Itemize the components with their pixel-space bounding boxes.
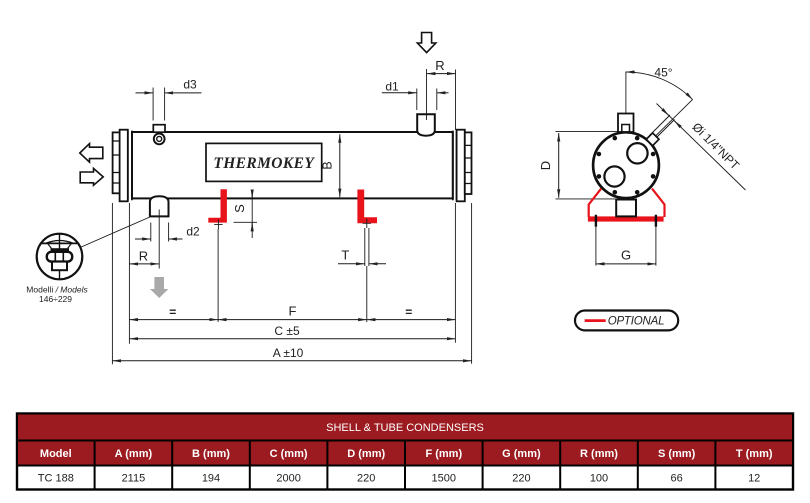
table headers [40,448,773,460]
dimension B line [339,134,341,197]
svg-text:R: R [139,249,148,264]
table title band [18,415,792,441]
svg-text:OPTIONAL: OPTIONAL [608,316,665,328]
svg-text:D (mm): D (mm) [347,448,385,460]
table column lines [95,441,716,490]
C dimension [129,338,455,340]
G tick marks [596,215,656,227]
extension line C right [454,203,456,343]
hollow down arrow [417,33,435,53]
svg-text:T (mm): T (mm) [736,448,773,460]
D dimension [558,133,560,198]
left end cap ring [120,130,128,202]
svg-text:=: = [169,305,176,319]
leader line [80,217,149,247]
svg-text:45°: 45° [654,66,672,80]
45 deg radial line [654,99,693,137]
table title separator [17,440,793,442]
detail centre line [59,234,61,279]
end flange circle [593,132,659,198]
end view: D bottom extension [556,198,617,200]
svg-text:THERMOKEY: THERMOKEY [213,155,315,172]
svg-text:Modelli / Models: Modelli / Models [26,284,88,294]
svg-text:G (mm): G (mm) [502,448,541,460]
detail nut [47,252,72,262]
svg-text:R (mm): R (mm) [580,448,618,460]
end view: D top extension [556,131,619,133]
shell body [132,132,453,198]
svg-text:D: D [538,161,553,170]
45 deg reference line [625,72,627,127]
A dimension [112,360,471,362]
svg-text:d3: d3 [183,78,197,92]
d2 fitting [150,196,169,216]
svg-text:S: S [232,204,247,213]
svg-text:=: = [405,305,412,319]
T dimension arrows [338,263,365,265]
hollow arrow left-pointing [80,144,103,163]
svg-text:12: 12 [748,473,760,485]
d3 extension lines [153,88,165,121]
NPT pipe walls [650,115,675,140]
detail dome [46,241,74,244]
G dimension [596,263,656,265]
end top fitting [618,114,634,133]
table outer [17,414,793,490]
svg-text:A ±10: A ±10 [273,346,304,360]
svg-text:S (mm): S (mm) [658,448,696,460]
tube pass upper [627,143,647,163]
d1 centre line [426,69,428,120]
right end cap ring [457,130,465,202]
G extension lines [596,227,656,266]
NPT leader [657,104,746,191]
table data row [38,473,761,485]
detail shell chord [40,242,79,244]
extension line A left [111,203,113,364]
equal span left [129,319,218,321]
45 deg connection square [646,133,659,146]
svg-text:220: 220 [357,473,375,485]
left support extension line [217,229,219,322]
svg-text:R: R [435,58,444,73]
THERMOKEY label box [206,143,322,181]
T plate double lines [365,228,369,266]
d3 dimension arrows [136,92,154,94]
svg-text:Model: Model [40,448,72,460]
d1 extension lines [417,89,437,111]
right tube plate extension above [455,70,457,131]
left support centre mark [214,220,222,230]
svg-text:2115: 2115 [122,473,146,485]
end bottom fitting [616,200,636,217]
end top fitting notch [622,125,630,133]
svg-text:220: 220 [512,473,530,485]
red saddle support [589,189,665,217]
svg-text:194: 194 [202,473,220,485]
flange bolts [597,136,656,195]
R bottom dimension [130,263,159,265]
S dimension [251,191,253,239]
extension line C left [128,203,130,344]
svg-text:C ±5: C ±5 [274,324,300,338]
optional red line [585,319,606,322]
detail gasket band [51,248,70,252]
lifting ring outer [154,134,165,145]
svg-text:d2: d2 [186,225,200,239]
right support centre mark [363,219,371,229]
svg-text:SHELL & TUBE CONDENSERS: SHELL & TUBE CONDENSERS [326,422,484,434]
d1 dimension arrows [382,92,417,94]
right cap bolt strip [465,132,472,194]
svg-text:B (mm): B (mm) [192,448,230,460]
detail circle [37,234,83,280]
NPT leader arrows [662,109,669,115]
svg-text:66: 66 [670,473,682,485]
svg-text:F (mm): F (mm) [425,448,462,460]
detail neck [48,243,72,248]
svg-text:A (mm): A (mm) [115,448,153,460]
left cap bolt strip [113,132,120,193]
svg-text:T: T [341,248,349,263]
R top dimension [427,73,456,75]
gray flow arrow [150,277,168,298]
d2 centre line [156,210,163,269]
left tube plate [128,131,132,201]
svg-text:G: G [621,248,631,263]
d1 fitting [417,114,435,136]
optional legend stadium [575,311,678,331]
vent fitting d3 [153,125,165,133]
svg-text:TC 188: TC 188 [38,473,74,485]
F span [218,319,367,321]
red base bar [588,216,664,221]
table header separator [17,465,793,467]
svg-text:146÷229: 146÷229 [39,294,72,304]
left support bracket (red) [208,189,227,222]
S tick [234,221,258,223]
extension line A right [471,203,473,364]
detail shank [52,262,67,271]
hollow arrow right-pointing [80,168,103,185]
equal span right [367,319,456,321]
svg-text:F: F [289,303,297,318]
right support bracket (red) [357,190,377,224]
d2 extension lines [151,223,169,242]
lifting ring inner [157,136,162,141]
svg-text:100: 100 [590,473,608,485]
45 deg arc [626,72,693,100]
svg-text:d1: d1 [385,79,399,93]
svg-text:2000: 2000 [276,473,300,485]
svg-text:1500: 1500 [432,473,456,485]
table header band [18,442,792,466]
tube pass lower [604,166,624,186]
svg-text:B: B [321,161,335,169]
d2 dimension arrows [135,238,151,240]
right tube plate [453,131,457,201]
svg-text:C (mm): C (mm) [270,448,308,460]
right support extension line [366,266,368,322]
